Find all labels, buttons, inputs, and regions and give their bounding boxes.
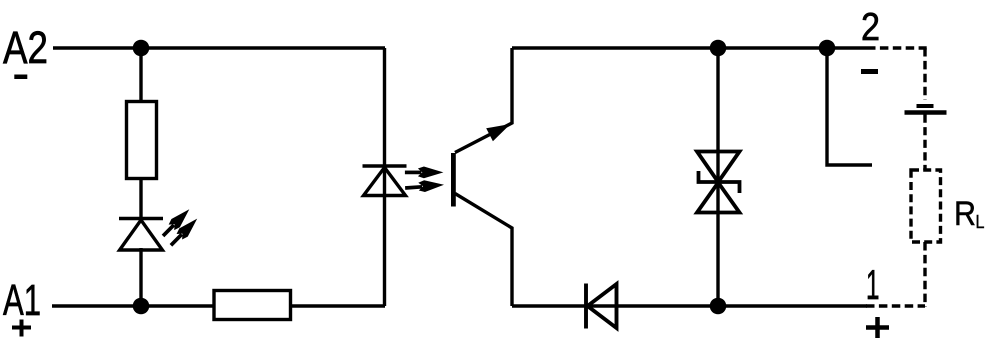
wire top-left (A2 rail) — [53, 46, 385, 49]
transistor Q1 collector arrowhead — [486, 124, 510, 141]
transistor Q1 collector — [455, 48, 512, 153]
label minus (A2 polarity) — [14, 75, 27, 80]
wire optocoupler primary vertical — [383, 48, 386, 306]
resistor R1 (vertical, series input) — [127, 102, 157, 179]
svg-text:L: L — [976, 211, 985, 232]
svg-text:1: 1 — [866, 261, 880, 308]
wire bottom-left (A1 to resistor R2) — [52, 304, 214, 307]
optocoupler U1 LED (cathode bar up) — [363, 164, 407, 167]
node junction TVS top — [710, 40, 727, 57]
transistor Q1 base bar (phototransistor) — [451, 153, 456, 207]
resistor R2 (horizontal, series input) — [214, 291, 291, 320]
battery B1 (external supply) — [917, 104, 934, 108]
dashed wire bottom to terminal 1 — [866, 304, 925, 307]
label minus (terminal 2 polarity) — [861, 69, 878, 74]
resistor RL (external load, dashed) — [911, 170, 941, 242]
TVS suppressor diode D3 (bidirectional) — [697, 152, 740, 213]
dashed wire battery to load — [923, 115, 926, 171]
node terminal 2 junction — [819, 40, 836, 57]
wire (resistor to LED) — [139, 178, 142, 218]
wire (R2 to optocoupler LED) — [291, 304, 386, 307]
transistor Q1 emitter — [455, 194, 512, 307]
node A2 junction — [133, 40, 150, 57]
dashed wire load circuit vertical top — [923, 48, 926, 100]
optocoupler U1 coupling arrows — [405, 167, 445, 194]
wire bottom-right (emitter to terminal 1) — [512, 304, 867, 307]
dashed wire terminal 2 to load circuit — [867, 46, 927, 49]
wire (LED to node A1) — [139, 248, 142, 306]
wire output contact stub — [827, 48, 872, 165]
wire left branch vertical (node A2 down to resistor) — [139, 48, 142, 103]
svg-text:A1: A1 — [3, 276, 41, 325]
diode D2 (freewheel, pointing left) — [586, 284, 617, 329]
label plus (terminal 1 polarity) — [866, 317, 889, 338]
wire TVS branch vertical — [716, 48, 719, 306]
svg-text:R: R — [954, 195, 976, 233]
node A1 junction — [133, 298, 150, 315]
LED D1 (input indicator, cathode bar up) — [119, 217, 163, 220]
svg-text:A2: A2 — [3, 22, 48, 73]
wire top-right (output rail to terminal 2) — [512, 46, 867, 49]
LED D1 emission arrows — [159, 205, 202, 249]
dashed wire load to terminal 1 vertical — [923, 242, 926, 307]
svg-text:2: 2 — [861, 6, 880, 49]
node junction TVS bottom — [710, 298, 727, 315]
label plus (A1 polarity) — [12, 320, 31, 337]
